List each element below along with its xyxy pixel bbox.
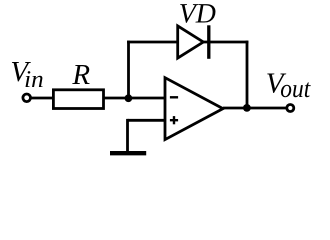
svg-text:in: in [24, 67, 44, 93]
diode VD triangle [178, 26, 204, 58]
wire feedback top left segment [127, 41, 178, 44]
wire op-amp output to terminal [223, 107, 287, 110]
wire resistor to op-amp inverting input [104, 97, 166, 100]
diode VD cathode bar [207, 25, 210, 59]
wire non-inverting input horizontal [128, 119, 166, 122]
input terminal circle [23, 94, 31, 102]
op-amp U1 triangle [165, 78, 223, 140]
svg-text:R: R [71, 59, 90, 91]
wire input terminal to resistor [29, 97, 54, 100]
ground [110, 151, 146, 155]
wire non-inverting input vertical to ground [126, 119, 129, 152]
junction node A [124, 94, 132, 102]
svg-text:VD: VD [179, 0, 216, 29]
svg-text:out: out [280, 74, 311, 103]
resistor R [53, 90, 103, 109]
wire feedback right vertical down to output [246, 41, 249, 108]
op-amp minus sign [170, 96, 178, 98]
wire junction up to feedback [127, 41, 130, 99]
wire diode cathode to right corner [203, 41, 248, 44]
output terminal circle [287, 105, 294, 112]
junction node output [243, 104, 251, 112]
op-amp plus sign [170, 119, 178, 121]
